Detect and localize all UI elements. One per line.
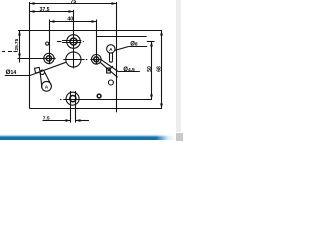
tiny circle bottom right: [97, 94, 101, 98]
svg-text:Ø4.5: Ø4.5: [123, 67, 135, 73]
svg-text:25.75: 25.75: [14, 38, 19, 50]
long diagonal b: [100, 62, 118, 77]
bottom slot hole: [60, 91, 79, 123]
svg-text:37.5: 37.5: [39, 7, 49, 13]
svg-text:50: 50: [147, 66, 153, 72]
right keyhole slot: [107, 45, 115, 63]
dimension 50: [150, 42, 153, 100]
dimension 75: [30, 2, 117, 5]
left dimension 25.75: [2, 31, 44, 63]
left small hole: [43, 53, 56, 63]
label D14 leader: [5, 62, 66, 75]
left square pad: [35, 67, 41, 73]
svg-text:A: A: [45, 84, 49, 90]
dimension 37.5: [30, 10, 74, 13]
scrollbar strip: [176, 0, 181, 132]
label D4.5 leader: [101, 59, 140, 71]
plate right edge line: [116, 2, 118, 112]
svg-text:Ø14: Ø14: [6, 69, 17, 76]
svg-text:75: 75: [71, 0, 77, 5]
extension line bottom hole centerline to 50 dim: [63, 99, 152, 101]
dimension 7.5: [43, 119, 90, 122]
dimension 68: [160, 31, 163, 109]
label D8 leader: [115, 47, 147, 51]
dimension texts: [6, 0, 163, 122]
bottom blue bar: [0, 134, 176, 140]
svg-text:Ø8: Ø8: [130, 42, 138, 48]
plate left edge: [29, 2, 31, 109]
blue bar right fade: [156, 134, 176, 140]
left keyhole slot: [40, 70, 51, 91]
svg-text:68: 68: [156, 66, 162, 72]
top slot hole: [57, 10, 84, 51]
plate bottom edge: [30, 108, 163, 110]
short diagonal c: [108, 66, 113, 71]
hole D14: [63, 51, 87, 68]
small square right: [107, 68, 111, 73]
step line: [97, 36, 147, 38]
bottom right grey corner: [176, 133, 184, 142]
plate top edge: [18, 30, 162, 32]
tiny circle top left: [46, 42, 49, 45]
svg-text:7.5: 7.5: [43, 116, 50, 122]
dimension 40: [50, 20, 97, 65]
svg-text:A: A: [109, 47, 113, 53]
svg-text:40: 40: [67, 17, 73, 23]
extension line top to 50 dim: [147, 41, 155, 43]
small circle right: [108, 80, 113, 85]
right small hole: [90, 55, 101, 65]
